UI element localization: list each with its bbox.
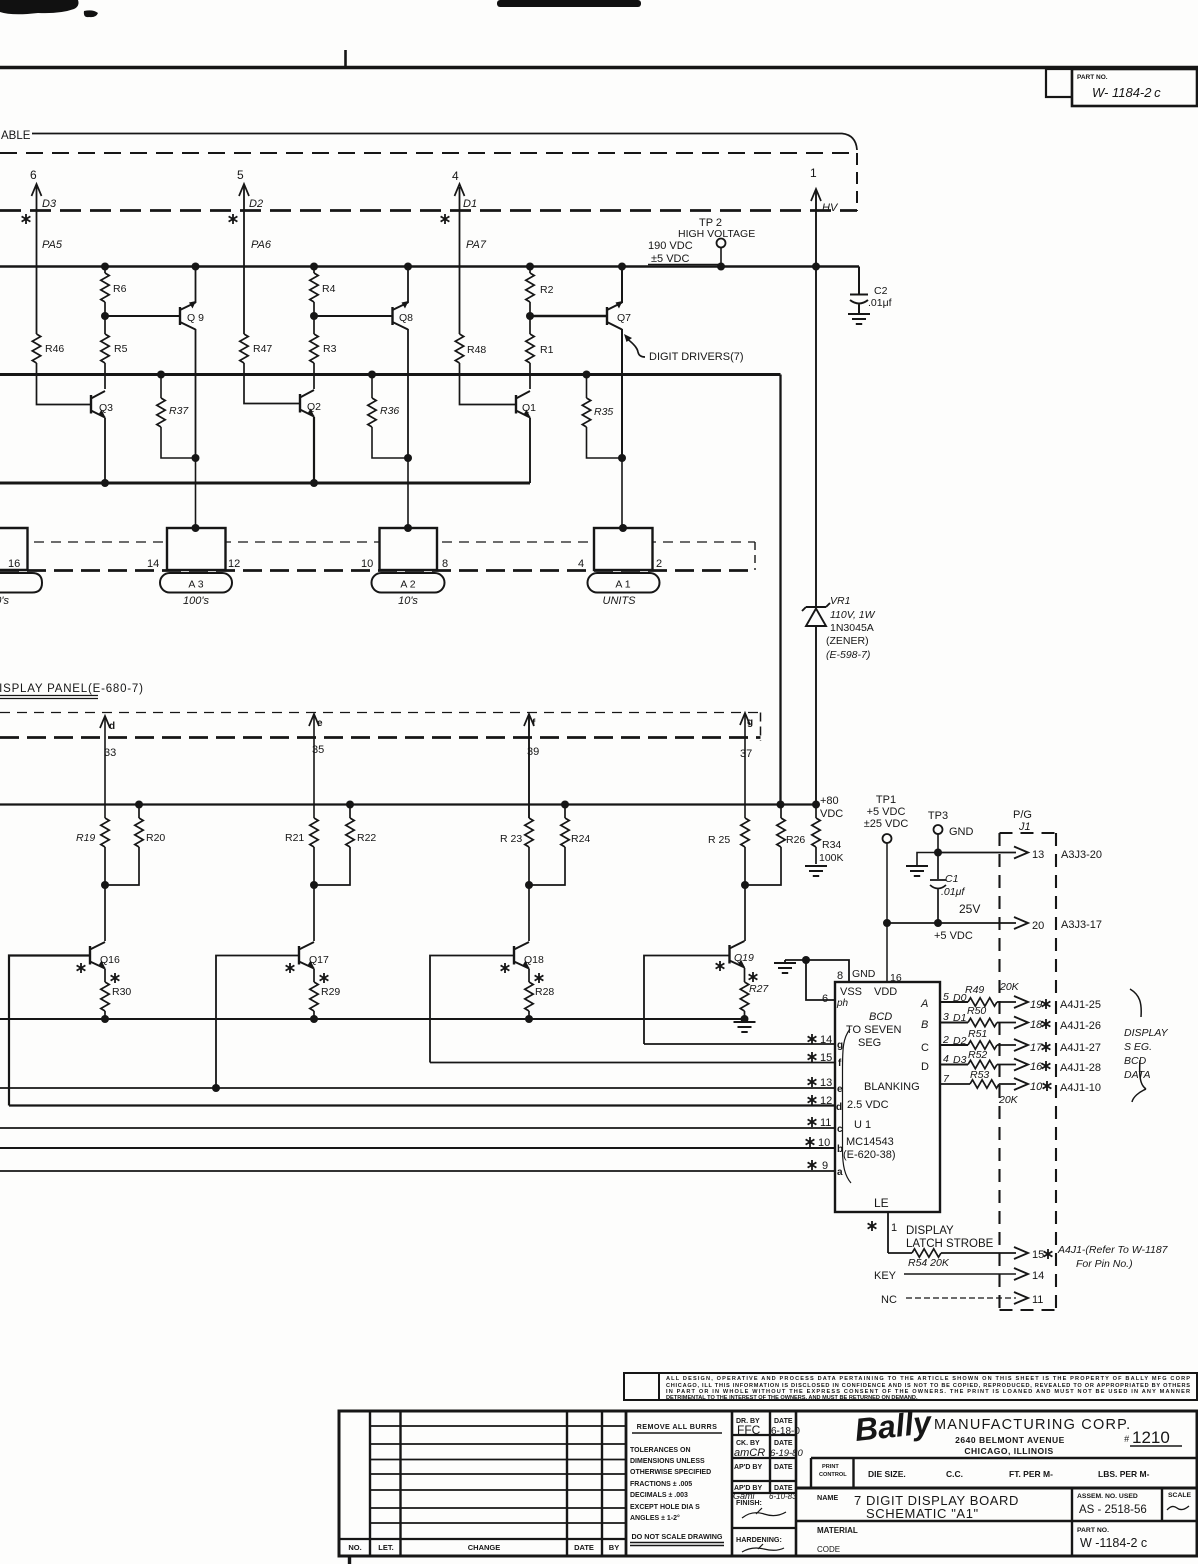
svg-text:W -1184-2 c: W -1184-2 c: [1080, 1536, 1147, 1550]
svg-text:R47: R47: [253, 343, 272, 355]
svg-text:12: 12: [820, 1095, 832, 1107]
svg-text:P/G: P/G: [1013, 809, 1032, 821]
svg-text:2: 2: [942, 1034, 949, 1046]
svg-text:(E-620-38): (E-620-38): [843, 1149, 896, 1161]
svg-text:GND: GND: [852, 968, 876, 980]
svg-text:MATERIAL: MATERIAL: [817, 1526, 858, 1535]
svg-text:4: 4: [943, 1053, 949, 1065]
svg-text:16: 16: [1030, 1061, 1043, 1073]
svg-text:R48: R48: [467, 344, 486, 356]
svg-text:NO.: NO.: [348, 1543, 361, 1552]
svg-text:6-18-0: 6-18-0: [771, 1426, 800, 1437]
svg-text:18: 18: [1030, 1019, 1043, 1031]
svg-text:8: 8: [442, 558, 448, 570]
svg-text:DATE: DATE: [574, 1543, 594, 1552]
svg-text:19: 19: [1030, 999, 1042, 1011]
svg-text:C1: C1: [945, 873, 958, 885]
svg-text:FRACTIONS ± .005: FRACTIONS ± .005: [630, 1481, 692, 1488]
svg-text:REMOVE ALL BURRS: REMOVE ALL BURRS: [637, 1422, 718, 1431]
svg-text:+5 VDC: +5 VDC: [867, 806, 906, 818]
svg-text:9: 9: [822, 1160, 828, 1172]
svg-text:BLANKING: BLANKING: [864, 1081, 920, 1093]
svg-text:20K: 20K: [999, 981, 1020, 993]
svg-text:PART NO.: PART NO.: [1077, 1527, 1109, 1534]
svg-text:Q8: Q8: [399, 312, 413, 324]
svg-text:C.C.: C.C.: [946, 1469, 963, 1479]
svg-text:FINISH:: FINISH:: [736, 1498, 762, 1507]
svg-text:SCHEMATIC "A1": SCHEMATIC "A1": [866, 1506, 979, 1521]
svg-text:LATCH STROBE: LATCH STROBE: [906, 1238, 994, 1250]
svg-text:R 23: R 23: [500, 833, 522, 845]
svg-text:+5 VDC: +5 VDC: [934, 930, 973, 942]
svg-text:16: 16: [890, 972, 902, 984]
svg-text:R27: R27: [749, 983, 769, 995]
svg-text:S EG.: S EG.: [1124, 1041, 1152, 1053]
svg-text:R 25: R 25: [708, 834, 730, 846]
svg-text:NAME: NAME: [817, 1493, 838, 1502]
svg-text:R36: R36: [380, 405, 399, 417]
svg-text:PA6: PA6: [251, 239, 272, 251]
svg-text:D3: D3: [953, 1054, 967, 1066]
svg-text:R34: R34: [822, 839, 841, 851]
svg-text:R54 20K: R54 20K: [908, 1257, 950, 1269]
svg-text:HV: HV: [822, 202, 839, 214]
svg-text:KEY: KEY: [874, 1270, 897, 1282]
svg-text:g: g: [747, 717, 753, 728]
svg-text:AP'D BY: AP'D BY: [734, 1464, 762, 1471]
svg-text:AS - 2518-56: AS - 2518-56: [1079, 1504, 1147, 1516]
svg-text:A4J1-27: A4J1-27: [1060, 1042, 1101, 1054]
svg-text:1: 1: [891, 1222, 897, 1234]
svg-text:VDD: VDD: [874, 986, 897, 998]
svg-text:LET.: LET.: [378, 1543, 393, 1552]
svg-text:R49: R49: [965, 984, 984, 996]
svg-text:R46: R46: [45, 343, 64, 355]
svg-text:110V, 1W: 110V, 1W: [830, 609, 876, 621]
svg-text:CODE: CODE: [817, 1545, 840, 1554]
svg-text:C2: C2: [874, 285, 888, 297]
svg-text:6-10-83: 6-10-83: [769, 1492, 797, 1501]
svg-text:±5 VDC: ±5 VDC: [651, 253, 689, 265]
svg-text:25V: 25V: [959, 902, 980, 916]
svg-text:15: 15: [1032, 1249, 1044, 1261]
svg-text:DIE SIZE.: DIE SIZE.: [868, 1469, 906, 1479]
svg-text:A 1: A 1: [615, 579, 630, 591]
svg-text:D1: D1: [953, 1012, 966, 1024]
svg-text:U 1: U 1: [854, 1119, 871, 1131]
svg-text:1: 1: [810, 166, 817, 180]
svg-text:A4J1-25: A4J1-25: [1060, 999, 1101, 1011]
svg-text:HARDENING:: HARDENING:: [736, 1535, 782, 1544]
svg-text:R19: R19: [76, 832, 95, 844]
svg-text:14: 14: [147, 558, 159, 570]
svg-text:11: 11: [820, 1117, 831, 1129]
svg-text:R30: R30: [112, 986, 131, 998]
svg-text:CHICAGO, ILLINOIS: CHICAGO, ILLINOIS: [964, 1446, 1053, 1456]
svg-text:R53: R53: [970, 1069, 989, 1081]
svg-text:10: 10: [818, 1137, 830, 1149]
svg-text:14: 14: [1032, 1270, 1044, 1282]
svg-text:11: 11: [1032, 1294, 1043, 1306]
svg-text:ph: ph: [836, 998, 849, 1009]
svg-text:Q1: Q1: [522, 402, 536, 414]
svg-text:10's: 10's: [398, 595, 418, 607]
svg-text:8: 8: [837, 970, 843, 982]
svg-text:VDC: VDC: [820, 808, 843, 820]
svg-text:HIGH VOLTAGE: HIGH VOLTAGE: [678, 228, 755, 240]
svg-text:BY: BY: [609, 1543, 619, 1552]
svg-text:J1: J1: [1018, 821, 1031, 833]
svg-text:FFC: FFC: [737, 1423, 761, 1437]
svg-text:4: 4: [578, 558, 584, 570]
svg-text:Q16: Q16: [100, 954, 120, 966]
svg-text:W- 1184-2 c: W- 1184-2 c: [1092, 85, 1161, 100]
svg-text:CHANGE: CHANGE: [468, 1543, 501, 1552]
svg-text:MC14543: MC14543: [846, 1136, 894, 1148]
svg-text:LE: LE: [874, 1196, 889, 1210]
svg-text:Q3: Q3: [99, 402, 113, 414]
svg-text:D2: D2: [953, 1035, 967, 1047]
svg-text:10: 10: [1030, 1081, 1043, 1093]
svg-text:For Pin No.): For Pin No.): [1076, 1258, 1133, 1270]
svg-text:D1: D1: [463, 198, 477, 210]
svg-text:4: 4: [452, 169, 459, 183]
svg-text:Q 9: Q 9: [187, 312, 204, 324]
svg-text:R2: R2: [540, 284, 554, 296]
svg-text:13: 13: [1032, 849, 1044, 861]
svg-text:R50: R50: [967, 1005, 986, 1017]
svg-text:BCD: BCD: [869, 1011, 892, 1023]
svg-text:FT. PER M-: FT. PER M-: [1009, 1469, 1053, 1479]
svg-text:A3J3-17: A3J3-17: [1061, 919, 1102, 931]
svg-text:(E-598-7): (E-598-7): [826, 649, 870, 661]
svg-text:1210: 1210: [1132, 1428, 1170, 1447]
svg-text:DISPLAY PANEL(E-680-7): DISPLAY PANEL(E-680-7): [0, 683, 144, 695]
svg-text:R24: R24: [571, 833, 590, 845]
svg-text:UNITS: UNITS: [603, 595, 637, 607]
svg-text:DETRIMENTAL TO THE INTEREST OF: DETRIMENTAL TO THE INTEREST OF THE OWNER…: [666, 1395, 918, 1401]
svg-text:6-19-80: 6-19-80: [770, 1448, 803, 1459]
svg-text:TO SEVEN: TO SEVEN: [846, 1024, 901, 1036]
svg-text:BCD: BCD: [1124, 1055, 1147, 1067]
svg-text:R21: R21: [285, 832, 304, 844]
svg-text:16: 16: [8, 558, 20, 570]
svg-text:C: C: [921, 1042, 929, 1054]
svg-text:3: 3: [943, 1011, 949, 1023]
svg-text:Q7: Q7: [617, 312, 631, 324]
svg-text:PA5: PA5: [42, 239, 63, 251]
svg-text:D2: D2: [249, 198, 263, 210]
svg-text:15: 15: [820, 1052, 832, 1064]
svg-text:d: d: [109, 721, 115, 732]
svg-text:PART NO.: PART NO.: [1077, 74, 1108, 81]
svg-text:A 2: A 2: [400, 579, 415, 591]
svg-text:g: g: [837, 1040, 843, 1051]
svg-text:R1: R1: [540, 344, 554, 356]
svg-text:5: 5: [237, 168, 244, 182]
svg-text:R5: R5: [114, 343, 128, 355]
svg-text:B: B: [921, 1019, 928, 1031]
svg-text:190 VDC: 190 VDC: [648, 240, 693, 252]
svg-text:DO NOT SCALE DRAWING: DO NOT SCALE DRAWING: [631, 1532, 722, 1541]
svg-text:A: A: [920, 998, 928, 1010]
svg-text:Q2: Q2: [307, 401, 321, 413]
svg-text:TP1: TP1: [876, 794, 896, 806]
svg-text:a: a: [837, 1167, 843, 1178]
svg-text:SEG: SEG: [858, 1037, 881, 1049]
svg-text:EXCEPT HOLE DIA S: EXCEPT HOLE DIA S: [630, 1504, 700, 1511]
svg-text:DIMENSIONS UNLESS: DIMENSIONS UNLESS: [630, 1458, 705, 1465]
svg-text:R51: R51: [968, 1028, 987, 1040]
svg-text:DATE: DATE: [774, 1440, 793, 1447]
svg-text:33: 33: [104, 747, 116, 759]
svg-text:1N3045A: 1N3045A: [830, 622, 874, 634]
svg-text:NC: NC: [881, 1294, 897, 1306]
svg-text:R22: R22: [357, 832, 376, 844]
svg-text:Q19: Q19: [734, 952, 754, 964]
svg-text:10: 10: [361, 558, 373, 570]
svg-text:A4J1-28: A4J1-28: [1060, 1062, 1101, 1074]
svg-text:6: 6: [822, 993, 828, 1005]
svg-text:2.5 VDC: 2.5 VDC: [847, 1099, 889, 1111]
svg-text:.01μf: .01μf: [868, 297, 892, 309]
svg-text:R20: R20: [146, 832, 165, 844]
svg-text:R35: R35: [594, 406, 613, 418]
svg-text:1000's: 1000's: [0, 595, 9, 607]
svg-text:100K: 100K: [819, 852, 844, 864]
svg-text:TP3: TP3: [928, 810, 948, 822]
svg-text:SCALE: SCALE: [1168, 1492, 1192, 1499]
svg-text:amCR: amCR: [734, 1447, 765, 1459]
svg-text:37: 37: [740, 748, 752, 760]
svg-text:13: 13: [820, 1077, 832, 1089]
svg-text:±25 VDC: ±25 VDC: [864, 818, 909, 830]
svg-text:14: 14: [820, 1034, 832, 1046]
svg-text:c: c: [837, 1124, 843, 1135]
svg-text:DATE: DATE: [774, 1485, 793, 1492]
svg-text:5: 5: [943, 991, 949, 1003]
svg-text:6: 6: [30, 168, 37, 182]
svg-text:2640 BELMONT AVENUE: 2640 BELMONT AVENUE: [955, 1435, 1065, 1445]
svg-text:2: 2: [656, 558, 662, 570]
svg-text:b: b: [837, 1144, 843, 1155]
svg-text:A4J1-(Refer To W-1187: A4J1-(Refer To W-1187: [1057, 1244, 1169, 1256]
svg-text:R6: R6: [113, 283, 127, 295]
svg-text:R52: R52: [968, 1049, 987, 1061]
svg-text:+80: +80: [820, 795, 839, 807]
svg-text:A4J1-26: A4J1-26: [1060, 1020, 1101, 1032]
svg-text:DATE: DATE: [774, 1464, 793, 1471]
svg-text:DECIMALS ± .003: DECIMALS ± .003: [630, 1492, 688, 1499]
svg-text:R3: R3: [323, 343, 337, 355]
svg-text:D: D: [921, 1061, 929, 1073]
svg-text:PRINT: PRINT: [822, 1464, 839, 1470]
svg-text:GND: GND: [949, 826, 974, 838]
svg-text:e: e: [837, 1084, 843, 1095]
svg-text:LBS. PER M-: LBS. PER M-: [1098, 1469, 1150, 1479]
svg-text:R4: R4: [322, 283, 336, 295]
svg-text:DISPLAY: DISPLAY: [1124, 1027, 1169, 1039]
svg-text:100's: 100's: [183, 595, 209, 607]
svg-text:TOLERANCES ON: TOLERANCES ON: [630, 1447, 691, 1454]
svg-text:CONTROL: CONTROL: [819, 1472, 847, 1478]
svg-text:Q18: Q18: [524, 954, 544, 966]
svg-text:DATA: DATA: [1124, 1069, 1150, 1081]
svg-text:R28: R28: [535, 986, 554, 998]
svg-text:12: 12: [228, 558, 240, 570]
svg-text:(ZENER): (ZENER): [826, 635, 869, 647]
svg-text:A3J3-20: A3J3-20: [1061, 849, 1102, 861]
svg-text:R26: R26: [786, 834, 805, 846]
svg-text:R29: R29: [321, 986, 340, 998]
svg-text:DATE: DATE: [774, 1418, 793, 1425]
svg-text:ANGLES ± 1-2°: ANGLES ± 1-2°: [630, 1514, 680, 1522]
svg-text:ASSEM. NO. USED: ASSEM. NO. USED: [1077, 1493, 1138, 1500]
svg-text:ABLE: ABLE: [1, 130, 31, 142]
svg-text:VR1: VR1: [830, 595, 850, 607]
svg-text:CK. BY: CK. BY: [736, 1440, 760, 1447]
svg-text:17: 17: [1030, 1042, 1043, 1054]
svg-text:PA7: PA7: [466, 239, 487, 251]
svg-text:OTHERWISE SPECIFIED: OTHERWISE SPECIFIED: [630, 1469, 711, 1476]
svg-text:A4J1-10: A4J1-10: [1060, 1082, 1101, 1094]
svg-text:VSS: VSS: [840, 986, 862, 998]
svg-text:d: d: [836, 1102, 842, 1113]
svg-text:DISPLAY: DISPLAY: [906, 1225, 954, 1237]
svg-text:20K: 20K: [998, 1094, 1019, 1106]
svg-text:A 3: A 3: [188, 579, 203, 591]
svg-text:D3: D3: [42, 198, 57, 210]
svg-text:20: 20: [1032, 920, 1044, 932]
svg-text:R37: R37: [169, 405, 189, 417]
svg-text:DIGIT DRIVERS(7): DIGIT DRIVERS(7): [649, 351, 744, 363]
svg-text:e: e: [317, 718, 323, 729]
svg-text:Q17: Q17: [309, 954, 329, 966]
svg-text:MANUFACTURING CORP.: MANUFACTURING CORP.: [934, 1417, 1131, 1433]
svg-text:.01μf: .01μf: [941, 886, 965, 898]
